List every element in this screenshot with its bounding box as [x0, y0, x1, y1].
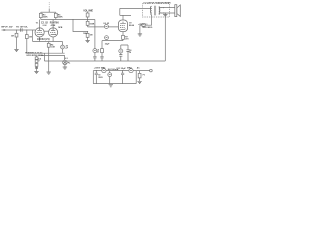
svg-text:50K: 50K [83, 33, 87, 35]
tube V2 EL84 [118, 20, 127, 32]
resistor R1 vertical [16, 30, 18, 49]
capacitor C7a plates [119, 55, 122, 61]
svg-text:V1: V1 [36, 22, 39, 24]
svg-text:.047: .047 [8, 25, 13, 28]
svg-text:1M: 1M [90, 35, 93, 37]
wire filter x102 [101, 41, 103, 57]
svg-text:GZ30 EZ80 6BW6: GZ30 EZ80 6BW6 [26, 55, 44, 57]
wire cathode EL84 [122, 32, 124, 41]
wire HT node [140, 24, 142, 26]
resistor R2 vertical [26, 30, 28, 53]
wire PSU ground rail [93, 83, 136, 85]
svg-text:µF: µF [66, 48, 69, 50]
transformer T1 dashed box [142, 4, 169, 17]
wire ground bus left [27, 52, 65, 54]
transformer T1 primary [151, 6, 152, 15]
capacitor C7a can [119, 49, 123, 53]
svg-text:R1 1M VOL: R1 1M VOL [16, 26, 28, 28]
capacitor C3 top box [87, 12, 89, 20]
capacitor C6a plates [93, 56, 96, 61]
svg-text:350V: 350V [98, 77, 103, 79]
svg-text:C4 .05: C4 .05 [103, 22, 110, 25]
wire grid return V1a [32, 30, 34, 42]
svg-text:32: 32 [97, 52, 100, 54]
svg-text:1M: 1M [11, 35, 14, 37]
fuse F1 [139, 71, 141, 82]
svg-text:AC: AC [137, 67, 140, 70]
resistor R5 plate B [55, 12, 57, 19]
tube V1b triode [49, 28, 58, 37]
wire grid V1b [44, 30, 48, 32]
ground fuse [137, 81, 141, 83]
wire plate stub V1b [52, 20, 54, 28]
svg-text:16: 16 [129, 52, 132, 54]
rectifier MR1 [102, 69, 106, 73]
terminal AC [150, 69, 153, 72]
wire PSU right vertical [135, 71, 137, 84]
wire PSU left vertical [92, 71, 94, 84]
capacitor C5 bypass [106, 35, 108, 37]
svg-text:0.02: 0.02 [43, 25, 48, 27]
svg-text:INPUT: INPUT [1, 26, 8, 28]
ground lamp [63, 67, 67, 69]
svg-text:470K: 470K [51, 24, 56, 27]
wire bus link down [43, 53, 45, 61]
svg-text:270: 270 [125, 39, 129, 41]
capacitor C6a can [93, 49, 97, 53]
capacitor C2 electrolytic [62, 42, 64, 54]
wire HT feed dotted [48, 9, 50, 12]
capacitor C12 [121, 71, 124, 84]
wire cathode rail [33, 41, 63, 43]
wire cathode stub V1b [52, 37, 54, 42]
node junction x73 [72, 19, 73, 20]
wire cathode stub V1a [39, 37, 41, 42]
wire HT tee bar [41, 11, 56, 13]
tube V1a triode [35, 28, 44, 37]
capacitor C10 [95, 71, 98, 84]
svg-text:500K: 500K [90, 23, 95, 25]
speaker terminal arrow top [163, 7, 165, 8]
svg-text:1.5K: 1.5K [51, 47, 56, 49]
capacitor C4 coupling [104, 25, 108, 29]
wire PSU B+ rail [93, 70, 149, 72]
wire tap down x73 [73, 20, 88, 32]
svg-text:+300V: +300V [94, 68, 101, 70]
wire ground bus main [44, 60, 165, 62]
transformer T1 core [155, 6, 156, 16]
wire screen jog [120, 8, 131, 15]
capacitor C6b plates [100, 56, 103, 61]
svg-text:F1: F1 [143, 75, 146, 77]
node secondary top [161, 7, 162, 8]
capacitor C6b box [101, 49, 104, 53]
wire HT cap ground [139, 25, 141, 34]
capacitor C1 series bars [21, 28, 23, 32]
node junction volume [87, 31, 88, 32]
wire plate EL84 up [122, 15, 124, 20]
ground under R8 [85, 41, 89, 43]
node input junctions [16, 29, 17, 30]
wire grid EL84 [88, 26, 119, 28]
wire plate to transformer [120, 7, 152, 9]
capacitor C7b [126, 50, 129, 61]
node secondary bottom [161, 13, 162, 14]
resistor R6 upper [87, 20, 89, 27]
svg-text:220K: 220K [58, 17, 63, 19]
wire plate stub V1a [39, 20, 41, 28]
node PSU left [96, 70, 97, 71]
svg-text:VOLUME: VOLUME [83, 10, 93, 12]
ground battery [34, 72, 38, 74]
input arrow [4, 29, 7, 31]
rectifier MR2 [129, 69, 133, 73]
wire secondary to speaker top [159, 7, 175, 9]
svg-text:220K: 220K [43, 17, 48, 19]
svg-text:350V WKG: 350V WKG [142, 27, 153, 29]
node speaker ground [165, 13, 166, 14]
transformer T1 secondary [159, 7, 160, 15]
svg-text:ECC83 (V1): ECC83 (V1) [37, 39, 50, 41]
ground input [14, 49, 18, 51]
wire R4 chain to ground [48, 53, 50, 72]
capacitor C9 HT node [142, 24, 145, 27]
ground HT [138, 34, 142, 36]
svg-text:NFB: NFB [58, 27, 63, 29]
wire primary bottom to B+ node [146, 15, 152, 25]
svg-text:+250V 0.1: +250V 0.1 [138, 24, 148, 26]
capacitor C11 can [109, 71, 111, 73]
svg-text:V: V [38, 61, 40, 63]
wire secondary to speaker bottom [159, 12, 175, 14]
svg-text:MR2: MR2 [127, 68, 132, 70]
wire main signal rail [41, 19, 95, 21]
resistor R8 lower [87, 32, 89, 41]
resistor R3 plate A [40, 12, 42, 19]
wire heater line [41, 54, 65, 56]
resistor R4 cathode [48, 42, 50, 54]
svg-text:C11 32µF: C11 32µF [116, 68, 126, 70]
speaker LS1 [175, 5, 177, 17]
svg-text:MR1: MR1 [101, 68, 106, 70]
node junction main [87, 19, 88, 20]
svg-text:32µF: 32µF [105, 43, 110, 45]
svg-text:1M: 1M [29, 37, 32, 39]
ground x48.7 [47, 72, 51, 74]
wire B+ vertical x94.9 [94, 20, 96, 57]
wire filter pair2 top bar [121, 45, 128, 50]
svg-text:6.3: 6.3 [65, 58, 69, 60]
svg-text:T1 OUTPUT TRANSFORMER: T1 OUTPUT TRANSFORMER [143, 1, 171, 4]
svg-text:PL: PL [68, 62, 71, 64]
wire cathode link [102, 40, 123, 42]
wire NFB down right [164, 13, 166, 61]
input jack J1 [2, 29, 5, 31]
battery B1 stack [36, 56, 38, 57]
ground PSU [109, 85, 113, 87]
wire input line [4, 29, 35, 31]
ground speaker [163, 15, 167, 17]
resistor R7 cathode EL84 [122, 35, 125, 39]
svg-text:EL84: EL84 [129, 24, 135, 27]
lamp P1 pilot [64, 55, 66, 60]
speaker terminal arrow bottom [163, 12, 165, 13]
node PSU mid [122, 70, 123, 71]
